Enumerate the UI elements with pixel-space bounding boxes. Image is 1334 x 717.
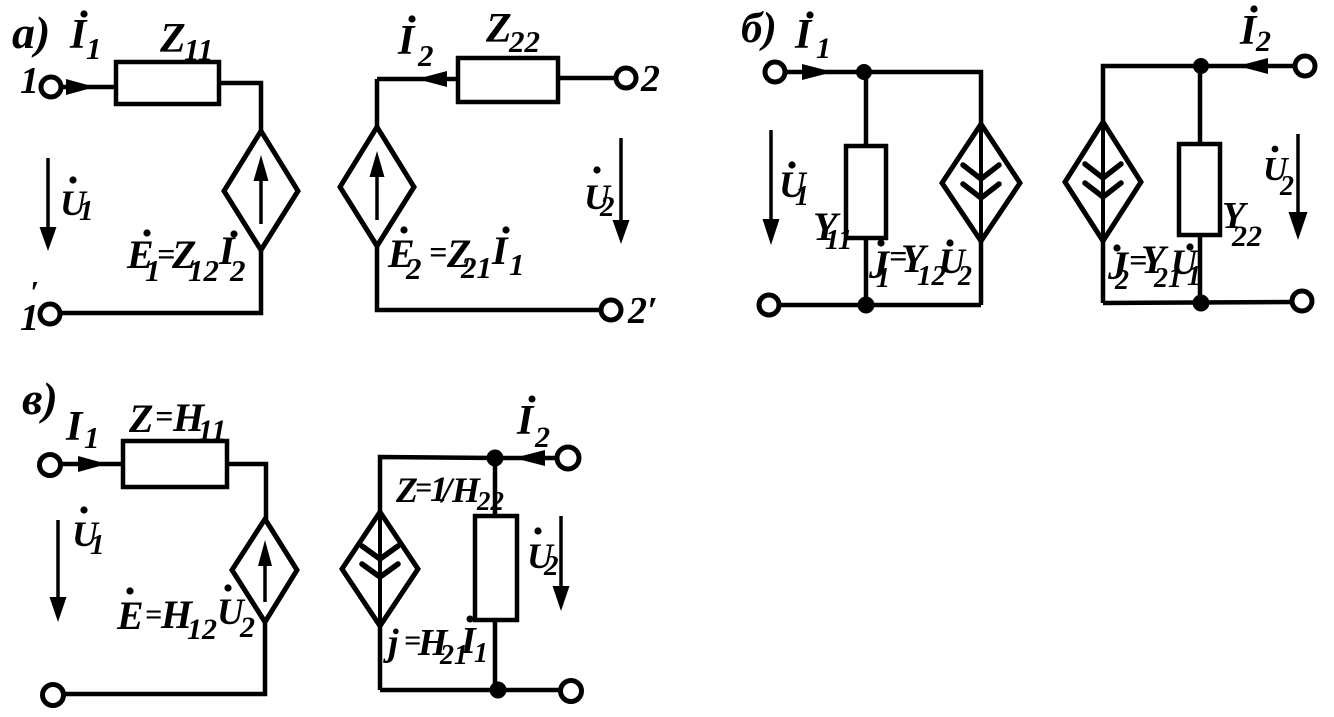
current label I1 (69, 10, 102, 66)
svg-text:2: 2 (543, 550, 559, 582)
controlled current source J (diamond with double chevron) (342, 512, 418, 626)
node (b2 bottom) (1193, 295, 1210, 312)
svg-text:2: 2 (534, 421, 550, 454)
voltage arrow U1 (v1) (50, 520, 67, 622)
wire E2 to terminal 2' (377, 246, 601, 310)
svg-text:I: I (491, 228, 509, 273)
value label E2=Z21 I1 (387, 226, 525, 286)
svg-text:21: 21 (460, 250, 492, 285)
controlled voltage source E1 (diamond) (224, 131, 298, 250)
terminal (v2 bottom-right) (561, 681, 582, 702)
wire node to J2 source top (1103, 66, 1201, 122)
wire Z11 to source E1 (219, 83, 261, 133)
value label E1=Z12 I2 (126, 228, 246, 288)
value label J2=Y21 U1 (1107, 237, 1201, 296)
svg-text:2: 2 (417, 38, 434, 73)
svg-text:=: = (145, 598, 162, 631)
voltage arrow U2 (v2) (553, 516, 570, 611)
wire Y11 bottom to node (864, 238, 869, 305)
voltage label U2 (b2) (1263, 146, 1294, 202)
value label Z22 (485, 6, 540, 59)
wire node down to Y11 (864, 72, 869, 146)
svg-text:2: 2 (1114, 265, 1129, 296)
svg-text:2: 2 (1255, 25, 1271, 58)
svg-text:б): б) (741, 5, 777, 52)
svg-text:Z: Z (159, 16, 186, 62)
wire J bottom to bottom rail (378, 626, 383, 690)
node (v2 bottom) (490, 682, 507, 699)
svg-text:a): a) (12, 7, 50, 58)
admittance Y11 (rect) (846, 146, 886, 238)
svg-text:I: I (397, 18, 416, 64)
terminal 1 (20, 60, 61, 102)
svg-text:2: 2 (405, 251, 422, 286)
terminal (b1 top-left) (765, 62, 785, 82)
terminal (b2 bottom-right) (1292, 291, 1312, 311)
svg-text:1: 1 (474, 638, 488, 669)
svg-text:1: 1 (1187, 261, 1201, 292)
admittance Y22 (rect) (1179, 144, 1220, 235)
svg-text:2′: 2′ (627, 290, 658, 332)
controlled current source J1 (diamond with double chevron) (942, 124, 1020, 241)
voltage label U1 (60, 176, 94, 227)
value label Y22 (1222, 195, 1262, 253)
svg-text:1: 1 (79, 195, 94, 227)
svg-text:12: 12 (188, 253, 219, 288)
value label E=H12 U2 (116, 584, 255, 646)
svg-text:в): в) (22, 373, 58, 424)
wire Z rect bottom to node (493, 620, 498, 690)
current label I1 (circuit v1) (65, 404, 100, 455)
svg-text:1: 1 (876, 263, 890, 294)
terminal (v1 bottom-left) (43, 685, 64, 706)
svg-text:I: I (65, 404, 84, 450)
node (b1 bottom) (858, 297, 875, 314)
wire with current arrow to H11 (61, 456, 123, 472)
wire with current arrow (pointing left) (503, 450, 557, 466)
wire J1 bottom to bottom rail (979, 241, 984, 305)
svg-text:22: 22 (508, 24, 540, 59)
svg-text:12: 12 (187, 613, 217, 646)
svg-text:E: E (116, 593, 144, 638)
voltage arrow U2 (b2) (1289, 134, 1308, 240)
controlled current source J2 (diamond with double chevron) (1065, 122, 1141, 241)
svg-text:1: 1 (90, 529, 105, 561)
svg-text:1: 1 (86, 31, 102, 66)
voltage arrow U1 (b1) (763, 130, 780, 245)
wire J2 bottom to bottom rail (1101, 241, 1106, 303)
value label Z11 (159, 16, 213, 67)
wire E1 to terminal 1' (62, 250, 261, 313)
value label J1=Y12 U2 (868, 236, 972, 294)
svg-text:1: 1 (20, 60, 39, 102)
svg-text:I: I (516, 398, 535, 444)
terminal 1' (20, 274, 60, 339)
value label Z=1/H22 (395, 469, 504, 516)
voltage label U1 (b1) (779, 161, 809, 212)
terminal 2 (616, 58, 660, 100)
wire node down to Z rect (493, 458, 498, 516)
terminal (v1 left) (40, 455, 61, 476)
svg-text:Z: Z (485, 6, 512, 52)
node (b2 top) (1193, 58, 1209, 74)
svg-text:1: 1 (795, 181, 809, 212)
svg-text:=: = (429, 234, 447, 270)
resistor Z=H11 (123, 441, 227, 487)
terminal (b2 top-right) (1295, 56, 1315, 76)
bottom rail b1 (779, 303, 981, 308)
value label Z=H11 (128, 395, 226, 447)
svg-text:11: 11 (825, 224, 852, 256)
svg-text:11: 11 (184, 32, 213, 67)
voltage label U2 (v2) (527, 527, 559, 582)
voltage arrow U1 (40, 158, 57, 251)
terminal 2' (601, 290, 658, 332)
svg-text:′: ′ (30, 274, 39, 310)
wire corner down to source E2 (375, 79, 380, 129)
svg-text:=: = (155, 398, 173, 434)
value label Y11 (813, 204, 852, 256)
controlled voltage source E (diamond) (232, 519, 297, 622)
bottom rail b2 (1103, 302, 1292, 303)
node (v2 top) (487, 450, 504, 467)
svg-text:22: 22 (476, 486, 504, 516)
svg-text:1: 1 (509, 247, 525, 282)
current label I2 (circuit b2) (1239, 5, 1271, 58)
wire with current arrow (pointing left) (1208, 58, 1295, 74)
svg-text:22: 22 (1231, 220, 1262, 253)
svg-text:2: 2 (1279, 171, 1294, 202)
svg-text:2: 2 (957, 261, 972, 292)
terminal (b1 bottom-left) (759, 295, 779, 315)
svg-text:2: 2 (599, 191, 615, 223)
wire node to source J top (380, 457, 495, 514)
wire terminal1 to Z11 with current arrow (61, 79, 116, 95)
wire Z22 to terminal 2 (558, 76, 616, 81)
wire node down to Y22 (1198, 66, 1203, 144)
voltage arrow U2 (613, 138, 630, 244)
svg-text:I: I (794, 12, 813, 58)
wire H11 to source E (227, 464, 266, 521)
svg-text:2: 2 (229, 253, 246, 288)
impedance Z=1/H22 (rect) (475, 516, 517, 620)
current label I1 (circuit b1) (794, 11, 831, 65)
resistor Z22 (458, 58, 558, 102)
voltage label U1 (v1) (72, 506, 105, 561)
svg-text:Z: Z (128, 396, 153, 441)
voltage label U2 (584, 166, 615, 223)
wire E bottom to terminal (64, 622, 265, 694)
bottom rail v2 (380, 688, 561, 693)
wire node to J1 source top (864, 72, 981, 124)
terminal (v2 top-right) (557, 447, 579, 469)
wire Y22 bottom to node (1198, 235, 1203, 304)
current label I2 (circuit v2) (516, 396, 550, 455)
value label j=H21 I1 (383, 616, 488, 672)
svg-text:11: 11 (198, 414, 226, 447)
svg-text:2: 2 (239, 611, 255, 644)
resistor Z11 (116, 62, 219, 104)
controlled voltage source E2 (diamond) (340, 127, 414, 246)
wire node to Z22 with current arrow (pointing left) (377, 71, 458, 87)
current label I2 (circuit a2) (397, 15, 434, 73)
svg-text:1: 1 (84, 420, 100, 455)
svg-text:2: 2 (640, 58, 660, 100)
node (b1 top) (856, 64, 872, 80)
svg-text:1: 1 (816, 32, 831, 65)
wire with current arrow to node (785, 64, 858, 80)
